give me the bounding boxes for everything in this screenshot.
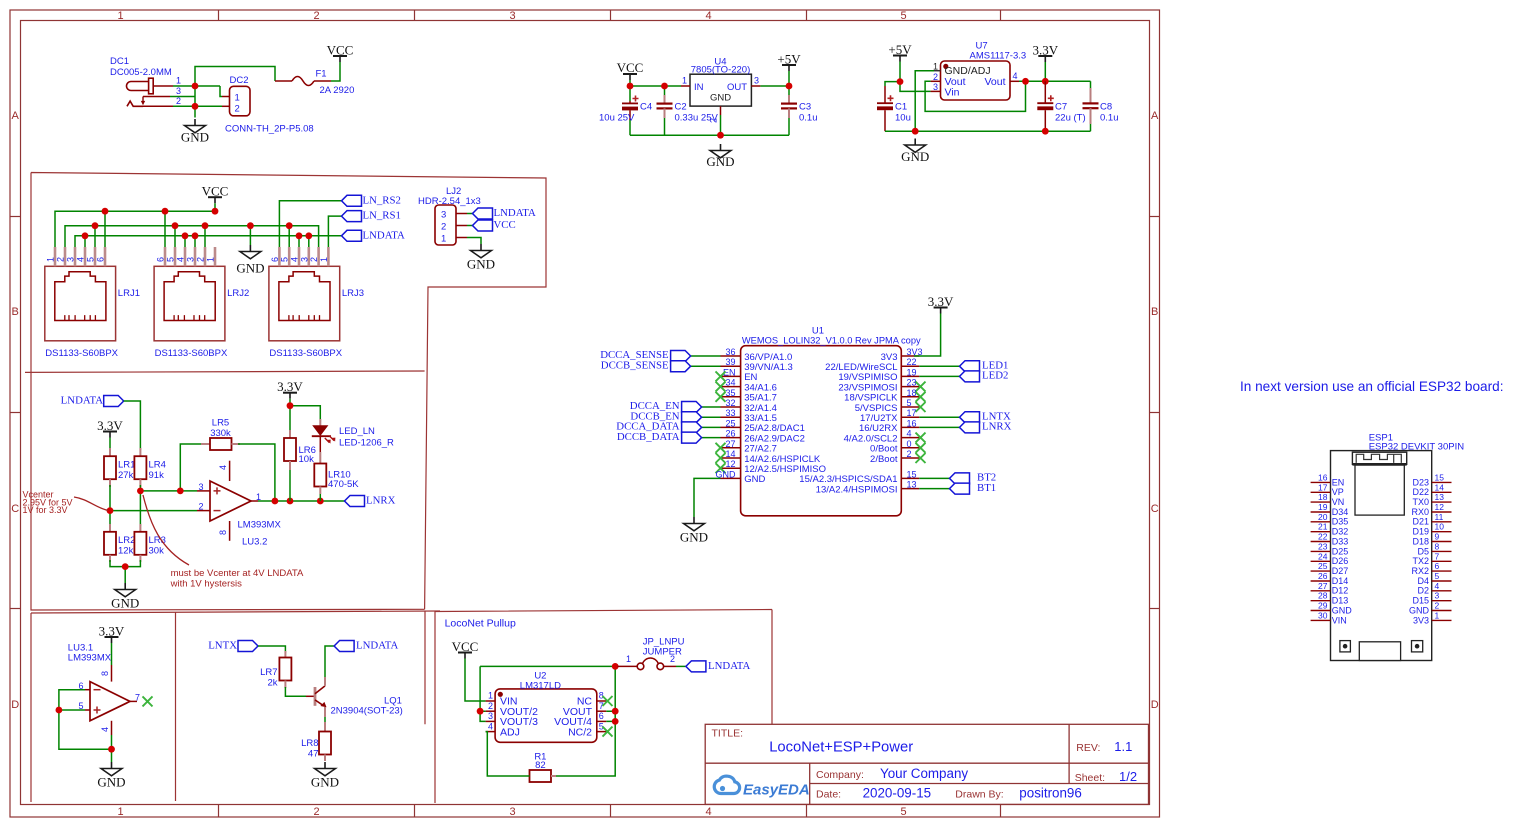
pin 5 of U1 (right) [855,398,920,414]
pin 2 of DC1 [143,96,181,107]
svg-text:DS1133-S60BPX: DS1133-S60BPX [155,348,228,359]
wire LR5 to output [238,444,275,501]
net port LNDATA (comparator input) [61,395,124,407]
pin 15 of ESP1 (D23) [1412,472,1451,487]
svg-text:6: 6 [156,257,166,262]
ground GND (LR8) [311,762,339,790]
junction dot [287,402,294,409]
junction dots row1 [102,208,219,215]
svg-text:33: 33 [725,408,735,418]
svg-text:LM393MX: LM393MX [238,520,282,531]
pin 5 of ESP1 (D4) [1417,571,1451,586]
resistor LR10 470-5K [314,464,359,502]
junction dot [177,488,184,495]
resistor R1 82 [530,752,557,783]
svg-text:LED2: LED2 [982,370,1008,382]
wire U1.39 to DCCB_SENSE [691,365,721,367]
svg-text:0.33u 25V: 0.33u 25V [675,113,719,124]
svg-text:2/Boot: 2/Boot [870,454,898,465]
no-connect X on U1 pin 12 [716,463,726,473]
svg-text:LU3.2: LU3.2 [242,537,267,548]
svg-text:2020-09-15: 2020-09-15 [863,786,932,801]
svg-text:IN: IN [694,82,704,93]
pin 2 of LJ2 [456,225,467,227]
svg-text:D2: D2 [1417,586,1429,596]
svg-text:5: 5 [166,257,176,262]
pin 5 of LRJ2 [166,247,176,266]
svg-text:1: 1 [319,257,329,262]
net port LNTX [960,410,1011,422]
svg-text:3: 3 [176,86,181,96]
pin 2 of LRJ2 [196,247,206,266]
wire U1.22 to LED1 [919,365,959,367]
wire pin4 to 3.3V and C7 C8 [1019,62,1091,92]
wire output row to LNRX [258,500,345,502]
LED LED_LN LED-1206_R [312,419,394,464]
net port LNTX [208,640,258,652]
svg-text:LNTX: LNTX [208,640,237,652]
svg-text:GND: GND [680,530,708,545]
svg-text:D23: D23 [1412,477,1429,487]
svg-text:must be Vcenter at 4V LNDATA: must be Vcenter at 4V LNDATA [171,568,304,579]
svg-text:29: 29 [1318,601,1328,611]
svg-text:8: 8 [100,671,110,676]
pin 9 of ESP1 (D18) [1412,532,1451,547]
section border (RJ area) [25,173,546,611]
svg-text:7805(TO-220): 7805(TO-220) [691,65,751,76]
svg-text:4: 4 [488,721,493,731]
svg-text:22: 22 [1318,532,1328,542]
svg-text:D15: D15 [1412,596,1429,606]
svg-text:LRJ2: LRJ2 [227,288,249,299]
svg-text:2: 2 [670,654,675,664]
svg-text:34: 34 [725,378,735,388]
power flag +5V [777,52,801,72]
svg-text:D21: D21 [1412,517,1429,527]
wire U7 pin2 loop to pin4 node [925,81,1025,111]
svg-text:GND: GND [901,149,929,164]
wire LN_RS1 to LRJ3.1 [328,216,341,247]
pin 2 of LRJ3 [309,247,319,266]
pin 5 of U2 [597,721,607,731]
svg-text:16: 16 [1318,472,1328,482]
pin 21 of ESP1 (D32) [1311,522,1349,537]
svg-text:D32: D32 [1332,527,1349,537]
svg-text:positron96: positron96 [1019,786,1082,801]
svg-text:4: 4 [176,257,186,262]
svg-text:3: 3 [198,482,203,492]
junction dot [137,488,144,495]
svg-text:15: 15 [907,469,917,479]
svg-text:1.1: 1.1 [1114,739,1132,754]
pin 27 of U1 (left) [721,439,777,455]
svg-text:3V3: 3V3 [1413,615,1429,625]
regulator U2 LM317LD [495,671,597,743]
wire node vertical [194,86,196,118]
resistor LR2 12k [104,524,135,562]
wire U7 pin1 to ground rail [915,71,934,132]
svg-text:9: 9 [1435,532,1440,542]
svg-text:5: 5 [280,257,290,262]
svg-text:1: 1 [682,76,687,86]
power flag VCC (pullup) [452,639,479,659]
net port DCCA_DATA [616,421,701,433]
svg-text:6: 6 [96,257,106,262]
svg-text:VIN: VIN [1332,615,1347,625]
no-connect X on pin 7 [143,696,153,706]
svg-text:19: 19 [1318,502,1328,512]
annotation leader curve (hysteresis) [143,495,189,565]
pin 1 of DC1 [153,76,181,87]
wire R1 to ADJ [486,732,530,776]
svg-text:7: 7 [1435,551,1440,561]
svg-text:C2: C2 [675,102,687,113]
net port DCCB_SENSE [601,359,691,371]
svg-text:LED_LN: LED_LN [339,426,375,437]
wire plus-input node [140,444,203,526]
svg-text:5: 5 [900,806,906,818]
junction dot [612,708,619,715]
pin 3 of LU3.2 [197,482,210,492]
junction dot [56,707,63,714]
pin 10 of ESP1 (D19) [1412,522,1451,537]
pin 3 of LRJ2 [186,247,196,266]
svg-text:4: 4 [290,257,300,262]
svg-text:D22: D22 [1412,487,1429,497]
svg-text:26: 26 [725,429,735,439]
svg-text:VP: VP [1332,487,1344,497]
svg-text:12: 12 [1435,502,1445,512]
junction dot [897,78,904,85]
no-connect X on U1 pin 5 [916,402,926,412]
no-connect X on U1 pin 27 [716,443,726,453]
net port BT1 [950,482,997,494]
pin 16 of U1 (right) [859,418,919,434]
svg-text:2: 2 [176,96,181,106]
svg-text:DC1: DC1 [110,56,129,67]
pin 4 of U1 (right) [844,429,920,445]
pin 30 of ESP1 (VIN) [1311,610,1347,625]
net port LNDATA [342,229,406,241]
power flag 3.3V (LU3.1) [99,624,125,644]
resistor LR7 2k [260,651,291,689]
svg-text:2: 2 [1435,601,1440,611]
svg-text:LR7: LR7 [260,667,277,678]
svg-text:4: 4 [705,10,711,22]
pin 7 of U2 [597,701,607,711]
svg-text:1: 1 [441,234,446,245]
svg-text:82: 82 [535,760,546,771]
svg-text:LocoNet Pullup: LocoNet Pullup [445,618,516,630]
svg-text:25: 25 [1318,561,1328,571]
wire LNDATA rail row3 [75,236,342,247]
no-connect X on U1 pin 23 [916,382,926,392]
svg-text:28: 28 [1318,591,1328,601]
net port LNDATA (LJ2) [473,207,537,219]
wire U1.16 to LNRX [919,426,959,428]
net port LNRX [960,421,1012,433]
svg-text:VCC: VCC [617,60,644,75]
svg-text:D14: D14 [1332,576,1349,586]
pin 1 of LRJ3 [319,247,329,266]
junction dot [627,83,634,90]
wire U7 ground rail [885,130,1091,132]
svg-text:GND: GND [1332,605,1353,615]
module ESP1 ESP32 DEVKIT 30PIN [1331,433,1465,661]
pin 6 of LRJ1 [96,247,106,266]
op-amp LU3.2 LM393MX [210,461,281,548]
svg-text:4: 4 [705,806,711,818]
svg-text:3: 3 [186,257,196,262]
svg-text:DCCB_SENSE: DCCB_SENSE [601,359,669,371]
svg-text:D18: D18 [1412,536,1429,546]
wire U4 GND down to rail [720,115,722,135]
svg-text:D19: D19 [1412,527,1429,537]
svg-text:14: 14 [725,449,735,459]
net port VCC (LJ2) [473,219,516,231]
resistor LR6 10k [284,430,316,501]
svg-text:ADJ: ADJ [500,726,520,738]
capacitor C7 22u (T) [1037,81,1085,131]
svg-text:91k: 91k [149,470,165,481]
power flag VCC [617,60,644,80]
pin 26 of U1 (left) [721,429,805,445]
pin 19 of U1 (right) [838,367,919,383]
svg-text:RX2: RX2 [1411,566,1429,576]
pin 27 of ESP1 (D12) [1311,581,1349,596]
svg-text:with 1V hystersis: with 1V hystersis [170,579,243,590]
EasyEDA logo [714,776,809,798]
wire LNTX to LR7 [258,646,285,653]
svg-text:D: D [1151,699,1159,711]
svg-text:B: B [1151,306,1158,318]
svg-text:D13: D13 [1332,596,1349,606]
wire LR7 to base [285,687,306,696]
svg-text:1: 1 [206,257,216,262]
resistor LR8 47 [301,722,331,761]
svg-text:LNDATA: LNDATA [494,207,537,219]
svg-text:30: 30 [1318,610,1328,620]
wire GND rail row2 [65,226,319,247]
svg-text:VCC: VCC [494,219,516,231]
wire U1.19 to LED2 [919,375,959,377]
wire minus-input node [110,485,197,526]
no-connect X on U2 pin5 [603,727,613,737]
ground GND under DC1 [181,119,209,145]
wire VCC to U4.IN [630,80,681,86]
svg-text:D26: D26 [1332,556,1349,566]
pin 1 of ESP1 (3V3) [1413,610,1452,625]
junction dot [612,663,619,670]
svg-text:23: 23 [1318,541,1328,551]
jumper JP_LNPU [618,637,685,670]
junction dot [192,103,199,110]
svg-text:4: 4 [907,429,912,439]
svg-text:2: 2 [933,72,938,82]
svg-text:EN: EN [1332,477,1345,487]
power flag 3.3V (LED pullup) [277,379,303,399]
connector DC1 (DC005-2.0MM) barrel jack [110,56,172,106]
svg-text:30k: 30k [149,546,165,557]
wire U1.3V3 to 3.3V [914,314,941,357]
wire divider bottom to GND [110,560,140,583]
svg-text:2: 2 [313,806,319,818]
net port LED1 [960,359,1009,371]
power flag VCC [327,43,354,63]
svg-text:EasyEDA: EasyEDA [743,782,810,799]
svg-text:LNRX: LNRX [982,421,1012,433]
svg-text:LN_RS2: LN_RS2 [363,194,401,206]
svg-text:1: 1 [235,92,240,103]
svg-text:6: 6 [1435,561,1440,571]
wire LJ2.2 to VCC [467,225,473,227]
wire jumper to dot and LNDATA [676,665,686,667]
sheet frame [10,10,1160,817]
svg-text:0.1u: 0.1u [799,113,818,124]
svg-text:Your Company: Your Company [880,766,968,781]
svg-text:D35: D35 [1332,517,1349,527]
pin 2 of U1 (right) [870,449,919,465]
wire collector to LNDATA [325,646,334,677]
svg-text:13: 13 [907,480,917,490]
annotation leader curve (Vcenter) [74,497,108,510]
svg-text:Sheet:: Sheet: [1075,772,1105,784]
svg-text:22u (T): 22u (T) [1055,113,1086,124]
pin 12 of ESP1 (RX0) [1411,502,1451,517]
svg-text:3: 3 [509,806,515,818]
annotation hysteresis note [170,568,304,590]
no-connect X on U1 pin 2 [916,453,926,463]
wire U1.13 to BT1 [919,488,949,490]
pin 4 of U2 [486,721,496,731]
pin 6 of LU3.1 [78,681,90,691]
svg-text:5: 5 [900,10,906,22]
svg-text:AMS1117-3.3: AMS1117-3.3 [970,51,1027,62]
svg-text:2k: 2k [267,678,277,689]
resistor LR5 330k (feedback) [201,418,240,451]
svg-text:26: 26 [1318,571,1328,581]
svg-text:10: 10 [1435,522,1445,532]
svg-text:CONN-TH_2P-P5.08: CONN-TH_2P-P5.08 [225,124,314,135]
svg-text:LNRX: LNRX [366,495,396,507]
pin 13 of U1 (right) [816,480,920,496]
svg-text:LNDATA: LNDATA [356,640,399,652]
wire DC1.3 to node [170,96,195,98]
svg-text:5: 5 [86,257,96,262]
svg-text:LR4: LR4 [149,460,166,471]
pin 1 of LRJ2 [206,247,216,266]
section border (pullup box) [435,610,772,804]
svg-text:27: 27 [725,439,735,449]
pin 29 of ESP1 (GND) [1311,601,1353,616]
pin 24 of ESP1 (D26) [1311,551,1349,566]
pin 6 of LRJ3 [270,247,280,266]
svg-text:2: 2 [441,222,446,233]
svg-text:4: 4 [1013,71,1018,81]
svg-text:11: 11 [1435,512,1444,522]
svg-text:LR1: LR1 [118,460,135,471]
ground GND (divider) [111,583,139,611]
wire emitter to LR8 [324,717,326,724]
svg-text:15: 15 [1435,472,1445,482]
pin 28 of ESP1 (D13) [1311,591,1349,606]
svg-text:13: 13 [1435,492,1445,502]
pin 23 of ESP1 (D25) [1311,541,1349,556]
svg-text:C: C [1151,503,1159,515]
svg-text:7: 7 [135,692,140,702]
svg-text:NC/2: NC/2 [568,726,592,738]
power flag 3.3V (divider) [97,418,123,438]
power flag +5V [888,42,912,62]
wire jumper rail to pins 2,3 [480,666,615,721]
wire DC1.2 to DC2.2 [173,105,222,107]
junction dot [287,498,294,505]
power flag VCC (RJ rails) [202,184,229,204]
wire +5V node [885,62,931,92]
svg-text:17: 17 [907,408,917,418]
connector LJ2 (HDR-2.54_1x3) [418,186,481,245]
svg-text:3.3V: 3.3V [277,379,303,394]
svg-text:3.3V: 3.3V [97,418,123,433]
ground GND under U1 [680,517,708,545]
svg-text:2: 2 [313,10,319,22]
svg-text:F1: F1 [315,69,326,80]
svg-text:LN_RS1: LN_RS1 [363,210,401,222]
pin 22 of U1 (right) [825,357,919,373]
svg-text:JUMPER: JUMPER [643,647,682,658]
svg-text:LR3: LR3 [149,535,166,546]
svg-text:GND: GND [97,775,125,790]
svg-text:RX0: RX0 [1411,507,1429,517]
svg-text:6: 6 [599,711,604,721]
svg-text:A: A [12,110,20,122]
svg-text:LM317LD: LM317LD [520,680,561,691]
wire 3.3V to LR1 [109,438,111,451]
net port LNRX [345,495,396,507]
pin 3V3 of U1 (right) [881,347,923,363]
op-amp LU3.1 LM393MX [68,643,130,736]
no-connect X on U1 pin 14 [716,453,726,463]
svg-text:6: 6 [270,257,280,262]
pin 11 of ESP1 (D21) [1412,512,1451,527]
svg-text:21: 21 [1318,522,1328,532]
svg-text:WEMOS_LOLIN32_V1.0.0 Rev JPMA: WEMOS_LOLIN32_V1.0.0 Rev JPMA copy [742,336,921,346]
pin 7 of LU3.1 [130,692,140,702]
resistor LR4 91k [134,448,166,487]
svg-text:LR2: LR2 [118,535,135,546]
svg-text:2: 2 [907,449,912,459]
net port BT2 [950,472,997,484]
svg-text:10u: 10u [895,113,911,124]
transistor LQ1 2N3904(SOT-23) [306,677,403,717]
wire LU3.1 feedback loop [59,690,112,762]
net port DCCA_SENSE [600,349,690,361]
wire VCC rail row1 [55,203,215,247]
pin 18 of ESP1 (VN) [1311,492,1345,507]
junction dot [192,83,199,90]
net port LN_RS2 [342,194,401,206]
pin 17 of ESP1 (VP) [1311,482,1344,497]
svg-text:A: A [1151,110,1159,122]
svg-text:GND: GND [111,596,139,611]
svg-text:VCC: VCC [452,639,479,654]
junction dot [661,83,668,90]
svg-text:LM393MX: LM393MX [68,653,112,664]
wire LNDATA to LR4 [124,401,141,450]
net port DCCB_DATA [617,431,702,443]
svg-text:17: 17 [1318,482,1328,492]
connector LRJ3 (DS1133-S60BPX) [269,266,364,359]
